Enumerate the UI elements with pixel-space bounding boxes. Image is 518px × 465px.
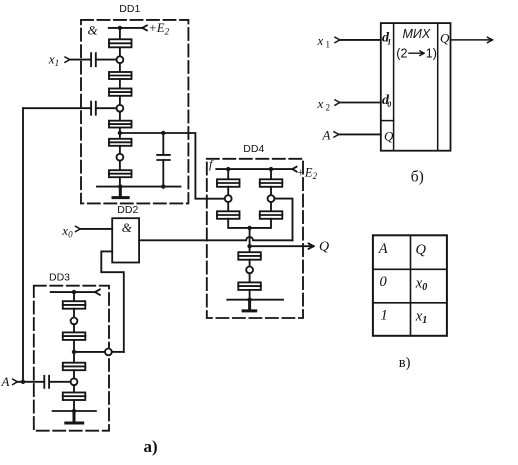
wire rail to VT1 bbox=[119, 28, 121, 39]
wire A-line to gate capacitor (DD1) bbox=[23, 107, 90, 109]
wire node b2 to VT10 bbox=[73, 385, 75, 392]
gate DD2 (AND) body bbox=[112, 218, 139, 262]
node: DD1 chain to ground rail bbox=[118, 184, 122, 188]
svg-text:x 1: x 1 bbox=[317, 33, 331, 50]
wire rail to VT7 bbox=[73, 292, 75, 301]
input arrow x0 bbox=[76, 226, 81, 231]
node: capacitor C1 top junction bbox=[161, 131, 165, 135]
capacitor C1 top wire bbox=[162, 133, 164, 155]
svg-text:DD1: DD1 bbox=[119, 3, 140, 15]
wire A to mux bbox=[339, 133, 381, 135]
svg-text:x1: x1 bbox=[48, 52, 59, 69]
arrow in (2→1) label bbox=[409, 51, 424, 56]
transistor VT16 (DD4 output) bbox=[238, 282, 260, 290]
transistor VT6 (DD1) bbox=[109, 170, 132, 177]
input arrow A (mux) bbox=[334, 132, 339, 137]
wire boundary pin to DD2 riser bbox=[112, 351, 124, 353]
wire VT14 to common node bbox=[250, 219, 271, 228]
power rail +E2 (DD1) bbox=[109, 25, 147, 30]
node: rail to left branch bbox=[226, 167, 230, 171]
gate node a3 (unconnected, DD1) bbox=[117, 154, 124, 161]
svg-text:б): б) bbox=[411, 169, 424, 186]
svg-text:Q: Q bbox=[416, 242, 427, 258]
svg-text:x 2: x 2 bbox=[317, 96, 331, 113]
ground symbol DD4 bbox=[243, 300, 256, 311]
wire Q output with arrow bbox=[250, 244, 314, 249]
gate node c3 (unconnected, DD4) bbox=[246, 267, 253, 274]
transistor VT5 (DD1) bbox=[109, 139, 132, 146]
svg-text:&: & bbox=[88, 23, 99, 38]
truth table outline bbox=[373, 235, 447, 335]
svg-text:0: 0 bbox=[380, 274, 388, 290]
truth table column divider bbox=[410, 235, 412, 335]
ground symbol DD3 bbox=[66, 411, 83, 423]
wire VT8 to DD3 output node bbox=[73, 340, 75, 363]
gate node b1 (unconnected, DD3) bbox=[71, 318, 78, 325]
node: DD4 branch join bbox=[247, 226, 251, 230]
svg-text:Q: Q bbox=[319, 240, 329, 255]
svg-text:Q: Q bbox=[384, 129, 394, 144]
mux U1 right strip divider bbox=[437, 23, 439, 151]
wire VT3 to node a2 bbox=[119, 96, 121, 105]
wire VT11 to node c1 bbox=[227, 187, 229, 195]
svg-text:(2: (2 bbox=[396, 46, 407, 60]
wire x0 to DD2 pin 1 bbox=[80, 228, 112, 230]
block DD4 dashed outline bbox=[207, 159, 303, 318]
transistor VT13 (DD4 right load) bbox=[260, 179, 283, 187]
input arrow x1 bbox=[65, 57, 70, 62]
ground rail DD4 bbox=[227, 299, 283, 301]
wire node a3 to VT6 bbox=[119, 161, 121, 171]
power rail +E2 (DD4) bbox=[216, 167, 296, 172]
svg-text:A: A bbox=[378, 241, 388, 257]
gate node c1 (DD4 left) bbox=[225, 195, 232, 202]
block DD1 dashed outline bbox=[81, 20, 188, 204]
wire DD1 output to DD4 left gate bbox=[120, 133, 225, 199]
svg-text:1): 1) bbox=[426, 46, 437, 60]
svg-text:x0: x0 bbox=[61, 223, 73, 240]
wire VT12 to common node bbox=[228, 219, 249, 228]
wire VT7 to node b1 bbox=[73, 309, 75, 318]
transistor VT4 (DD1) bbox=[109, 121, 132, 128]
transistor VT9 (DD3) bbox=[63, 363, 86, 371]
capacitor C1 plates bbox=[157, 155, 170, 160]
wire join node down to output chain bbox=[249, 228, 251, 252]
gate node a1 (x1 input, DD1) bbox=[117, 56, 124, 63]
svg-text:+E2: +E2 bbox=[149, 21, 170, 37]
svg-text:+E2: +E2 bbox=[297, 166, 318, 182]
transistor VT11 (DD4 left load) bbox=[217, 179, 240, 187]
wire node a2 to VT4 bbox=[119, 112, 121, 121]
block DD3 dashed outline bbox=[34, 286, 109, 431]
wire node b1 to VT8 bbox=[73, 324, 75, 332]
wire VT5 to node a3 bbox=[119, 146, 121, 154]
transistor VT8 (DD3) bbox=[63, 332, 86, 340]
svg-text:DD3: DD3 bbox=[49, 271, 70, 283]
wire node c1 to VT12 bbox=[227, 202, 229, 211]
transistor VT2 (DD1) bbox=[109, 72, 132, 79]
wire node a1 to VT2 bbox=[119, 63, 121, 72]
truth table row divider 1 bbox=[373, 268, 447, 270]
boundary pin circle (DD3 output) bbox=[105, 349, 112, 356]
svg-text:A: A bbox=[1, 374, 10, 389]
wire gate capacitor to node b2 bbox=[50, 381, 71, 383]
node: DD1 drain-rail junction bbox=[118, 26, 122, 30]
wire rail to VT11 bbox=[227, 169, 229, 179]
svg-text:МИХ: МИХ bbox=[403, 27, 431, 41]
svg-text:A: A bbox=[322, 128, 331, 143]
transistor VT12 (DD4 left) bbox=[217, 211, 240, 219]
node: DD3 chain to ground rail bbox=[72, 409, 76, 413]
node: DD1 output bbox=[118, 131, 122, 135]
wire A to junction bbox=[17, 381, 43, 383]
node: Q output junction bbox=[247, 244, 251, 248]
node: A wire to vertical bus bbox=[21, 380, 25, 384]
gate capacitor (x1, DD1) bbox=[91, 53, 96, 66]
wire VT15 to node c3 bbox=[249, 260, 251, 267]
transistor VT7 (DD3 load) bbox=[63, 301, 86, 309]
svg-text:1: 1 bbox=[387, 38, 391, 47]
wire gate capacitor to node a2 bbox=[97, 107, 117, 109]
ground rail DD3 bbox=[53, 410, 96, 412]
gate node c2 (DD4 right) bbox=[268, 195, 275, 202]
wire x1 to gate capacitor bbox=[70, 59, 90, 61]
svg-text:а): а) bbox=[144, 437, 158, 456]
wire DD3 output to DD2 pin 2 bbox=[101, 251, 124, 352]
node: capacitor C1 to ground rail bbox=[161, 184, 165, 188]
svg-text:в): в) bbox=[399, 355, 411, 371]
svg-text:DD4: DD4 bbox=[243, 143, 264, 155]
ground rail DD1 bbox=[97, 186, 181, 188]
node: rail to right branch bbox=[269, 167, 273, 171]
wire VT1 to node a1 bbox=[119, 47, 121, 56]
wire x1 to mux bbox=[340, 39, 381, 41]
gate node b2 (A input, DD3) bbox=[71, 378, 78, 385]
wire x2 to mux bbox=[340, 102, 381, 104]
input arrow x2 (mux) bbox=[335, 100, 340, 105]
wire DD4 right gate feed bbox=[274, 199, 292, 241]
wire gate capacitor to node a1 bbox=[97, 59, 117, 61]
svg-text:Q: Q bbox=[440, 31, 450, 46]
svg-text:1: 1 bbox=[381, 308, 388, 324]
transistor VT3 (DD1) bbox=[109, 89, 132, 96]
svg-text:DD2: DD2 bbox=[117, 204, 138, 216]
mux U1 body bbox=[381, 23, 451, 151]
wire A vertical bus (left edge) bbox=[22, 108, 24, 382]
node: DD4 chain to ground rail bbox=[247, 298, 251, 302]
capacitor C1 bottom wire bbox=[162, 160, 164, 187]
wire node c3 to VT16 bbox=[249, 273, 251, 282]
wire DD3 output to boundary pin bbox=[76, 351, 105, 353]
wire DD2 output to DD4 right gate (with hop over node) bbox=[139, 237, 292, 240]
wire VT13 to node c2 bbox=[270, 187, 272, 195]
mux U1 select cell divider bbox=[381, 120, 394, 122]
ground symbol DD1 bbox=[113, 187, 128, 198]
power rail DD3 bbox=[51, 289, 100, 295]
wire mux output with arrow bbox=[451, 37, 493, 42]
input arrow x1 (mux) bbox=[335, 37, 340, 42]
gate capacitor (A, DD3) bbox=[44, 376, 49, 388]
transistor VT14 (DD4 right) bbox=[260, 211, 283, 219]
wire VT2 to VT3 bbox=[119, 79, 121, 89]
gate node a2 (A input, DD1) bbox=[117, 105, 124, 112]
wire node c2 to VT14 bbox=[270, 202, 272, 211]
transistor VT15 (DD4 output) bbox=[238, 252, 260, 260]
wire rail to VT13 bbox=[270, 169, 272, 179]
input arrow A bbox=[13, 379, 18, 384]
wire VT16 to ground rail bbox=[249, 290, 251, 300]
wire VT4 to output node bbox=[119, 128, 121, 139]
truth table row divider 2 bbox=[373, 302, 447, 304]
svg-text:&: & bbox=[122, 220, 133, 235]
wire VT10 to ground rail bbox=[73, 400, 75, 411]
node: DD3 output bbox=[72, 350, 76, 354]
gate capacitor (A, DD1) bbox=[91, 102, 96, 115]
mux U1 left strip divider bbox=[393, 23, 395, 151]
wire VT9 to node b2 bbox=[73, 370, 75, 378]
node: DD3 rail junction bbox=[72, 290, 76, 294]
transistor VT10 (DD3) bbox=[63, 393, 86, 401]
svg-text:0: 0 bbox=[387, 100, 391, 109]
transistor VT1 (DD1 load) bbox=[109, 39, 132, 47]
wire VT6 to ground rail bbox=[119, 177, 121, 186]
